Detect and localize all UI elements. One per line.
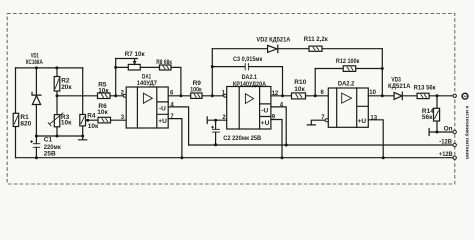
wire R12 line: [315, 68, 382, 70]
wire DA2.1 pin12 output: [271, 95, 292, 97]
svg-text:+U: +U: [261, 120, 270, 127]
wire R2/R3 branch: [56, 68, 58, 136]
resistor R12: [336, 58, 360, 71]
wire main signal line left: [57, 95, 123, 97]
wire R7 inverting-node vertical: [115, 59, 117, 96]
svg-text:КС168А: КС168А: [26, 59, 43, 66]
svg-text:+U: +U: [358, 118, 367, 125]
svg-text:10к: 10к: [97, 109, 108, 116]
svg-text:820: 820: [20, 121, 31, 128]
svg-text:100к: 100к: [190, 87, 202, 94]
capacitor C1: [30, 136, 61, 158]
trimmer resistor R7: [125, 51, 146, 70]
svg-text:КД521А: КД521А: [388, 83, 411, 90]
connector symbol: [462, 93, 468, 99]
svg-text:DA1: DA1: [142, 74, 151, 81]
svg-text:R11 2,2к: R11 2,2к: [304, 36, 329, 43]
wire C3 branch: [212, 67, 282, 96]
wire top-left rail: [16, 67, 83, 69]
capacitor C3: [233, 56, 263, 70]
op-amp DA1: [121, 74, 175, 128]
svg-text:R12 100к: R12 100к: [336, 58, 360, 65]
zener diode VD1: [26, 53, 43, 105]
resistor R9: [190, 80, 202, 99]
svg-text:56к: 56к: [422, 114, 433, 121]
+12V terminal: [439, 151, 457, 159]
ground at DA2.2 pin7: [307, 120, 325, 125]
wire DA2.2 pin10 output line: [368, 95, 453, 97]
wire VD2/R11 feedback line: [212, 48, 382, 50]
svg-text:10к: 10к: [98, 87, 109, 94]
resistor R11: [304, 36, 329, 52]
svg-text:DA2.1: DA2.1: [242, 74, 258, 81]
wire DA2.1 pin9 to +12V rail: [271, 120, 282, 158]
wire feedback vertical at pin1 node: [211, 49, 213, 96]
wire +12V bottom rail: [16, 157, 454, 159]
ground / Op line: [429, 126, 453, 136]
svg-text:R13 56к: R13 56к: [414, 85, 437, 92]
wire R4 branch vertical: [82, 68, 84, 136]
wire DA1 pin3 input line: [86, 119, 127, 121]
svg-text:10к: 10к: [61, 120, 72, 127]
output terminal: [453, 94, 456, 97]
svg-text:10к: 10к: [294, 86, 305, 93]
resistor R2: [54, 77, 72, 92]
svg-text:VD2 КД521А: VD2 КД521А: [256, 37, 290, 44]
wire R9 to DA2.1 pin1: [202, 95, 224, 97]
svg-text:DA2.2: DA2.2: [338, 80, 355, 87]
svg-text:к источнику питания: к источнику питания: [465, 106, 470, 159]
svg-text:25В: 25В: [44, 151, 56, 158]
resistor R10: [292, 79, 307, 99]
ground at DA2.1 pin2: [207, 117, 227, 124]
svg-text:10к: 10к: [88, 123, 99, 130]
svg-text:+U: +U: [158, 118, 167, 125]
ground: [79, 136, 87, 140]
-12V terminal: [439, 139, 456, 147]
resistor R5: [98, 82, 111, 99]
wire DA2.2 pin13 to +12V rail: [368, 120, 383, 158]
svg-text:-12В: -12В: [439, 139, 452, 146]
svg-text:C1: C1: [44, 137, 53, 144]
svg-text:C2 220мк 25В: C2 220мк 25В: [223, 135, 261, 142]
svg-text:Оп: Оп: [444, 126, 453, 133]
resistor R8: [156, 59, 172, 70]
dashed enclosure border: [7, 14, 455, 185]
wire feedback right vertical: [381, 49, 383, 96]
resistor R6: [97, 103, 110, 123]
svg-text:C3 0,015мк: C3 0,015мк: [233, 56, 263, 63]
diode VD3: [388, 77, 411, 100]
wire DA1 pin7 to +12V rail: [168, 119, 182, 158]
resistor R14: [422, 96, 440, 132]
wire ground line left: [36, 135, 82, 137]
op-amp DA2.2: [321, 80, 378, 127]
wire R7 wiper line: [116, 59, 138, 62]
svg-text:140УД7: 140УД7: [137, 81, 158, 87]
svg-text:10: 10: [369, 90, 376, 96]
wire -12V rail: [189, 144, 454, 146]
wire VD1 branch: [35, 68, 37, 136]
wire DA1 pin4 to -12V rail: [168, 107, 188, 145]
svg-text:R4: R4: [87, 113, 96, 120]
svg-text:КР140УД20А: КР140УД20А: [233, 82, 267, 88]
resistor R13: [414, 85, 437, 99]
diode VD2: [256, 37, 290, 53]
svg-text:-U: -U: [159, 105, 166, 112]
wire DA1 pin6 output: [168, 95, 191, 97]
wire DA2.1 pin4 to -12V rail: [271, 107, 286, 145]
svg-text:+12В: +12В: [439, 151, 453, 158]
svg-text:R8 68к: R8 68к: [156, 59, 172, 66]
resistor R1: [13, 113, 31, 127]
wire left branch vertical (R1 branch): [15, 68, 17, 158]
svg-text:-U: -U: [261, 108, 268, 115]
resistor R4: [80, 113, 99, 130]
Op terminal: [453, 130, 456, 133]
svg-text:20к: 20к: [61, 84, 72, 91]
capacitor C2: [211, 120, 261, 145]
trimmer resistor R3: [48, 113, 72, 127]
wire R10 to DA2.2 pin6: [306, 95, 329, 97]
svg-text:R7 10к: R7 10к: [125, 51, 146, 58]
wire R12 left vertical: [314, 69, 316, 96]
wire R7/R8 feedback line: [116, 67, 181, 95]
op-amp DA2.1: [222, 74, 284, 129]
